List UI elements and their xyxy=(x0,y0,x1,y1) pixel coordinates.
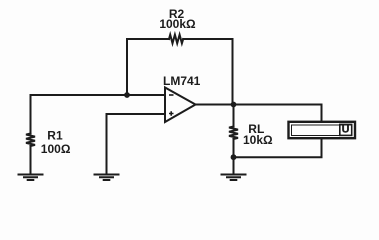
voltmeter inner display xyxy=(292,125,353,136)
svg-text:10kΩ: 10kΩ xyxy=(243,133,273,147)
resistor RL xyxy=(229,127,238,140)
ground (RL) xyxy=(222,175,246,181)
op-amp plus sign xyxy=(169,111,174,115)
wire non-inverting input xyxy=(107,114,166,174)
op-amp U1 triangle xyxy=(165,88,196,123)
wire feedback right xyxy=(183,39,232,105)
wire inverting input xyxy=(31,94,166,96)
voltmeter unit cell box xyxy=(340,124,352,135)
resistor R2 xyxy=(169,35,183,44)
wire R1 to ground xyxy=(30,146,32,174)
wire RL bottom lead xyxy=(233,139,235,174)
svg-text:100kΩ: 100kΩ xyxy=(159,17,196,31)
wire feedback top xyxy=(127,39,169,95)
resistor R1 xyxy=(26,134,35,147)
node A (feedback to inverting input) xyxy=(124,92,130,98)
voltmeter U outer box xyxy=(289,122,356,138)
ground (R1) xyxy=(19,175,43,181)
wire output xyxy=(196,104,322,106)
svg-text:U: U xyxy=(342,124,350,136)
svg-text:100Ω: 100Ω xyxy=(41,142,71,156)
ground (non-inverting input) xyxy=(95,175,119,181)
wire RL top lead xyxy=(233,105,235,127)
op-amp minus sign xyxy=(169,94,174,96)
wire left branch down xyxy=(30,95,32,134)
svg-text:R1: R1 xyxy=(47,129,63,143)
node B (output junction) xyxy=(231,102,237,108)
wire meter top xyxy=(321,105,323,122)
wire meter bottom xyxy=(234,139,322,157)
node C (RL bottom junction) xyxy=(231,154,237,160)
svg-text:LM741: LM741 xyxy=(163,74,201,88)
